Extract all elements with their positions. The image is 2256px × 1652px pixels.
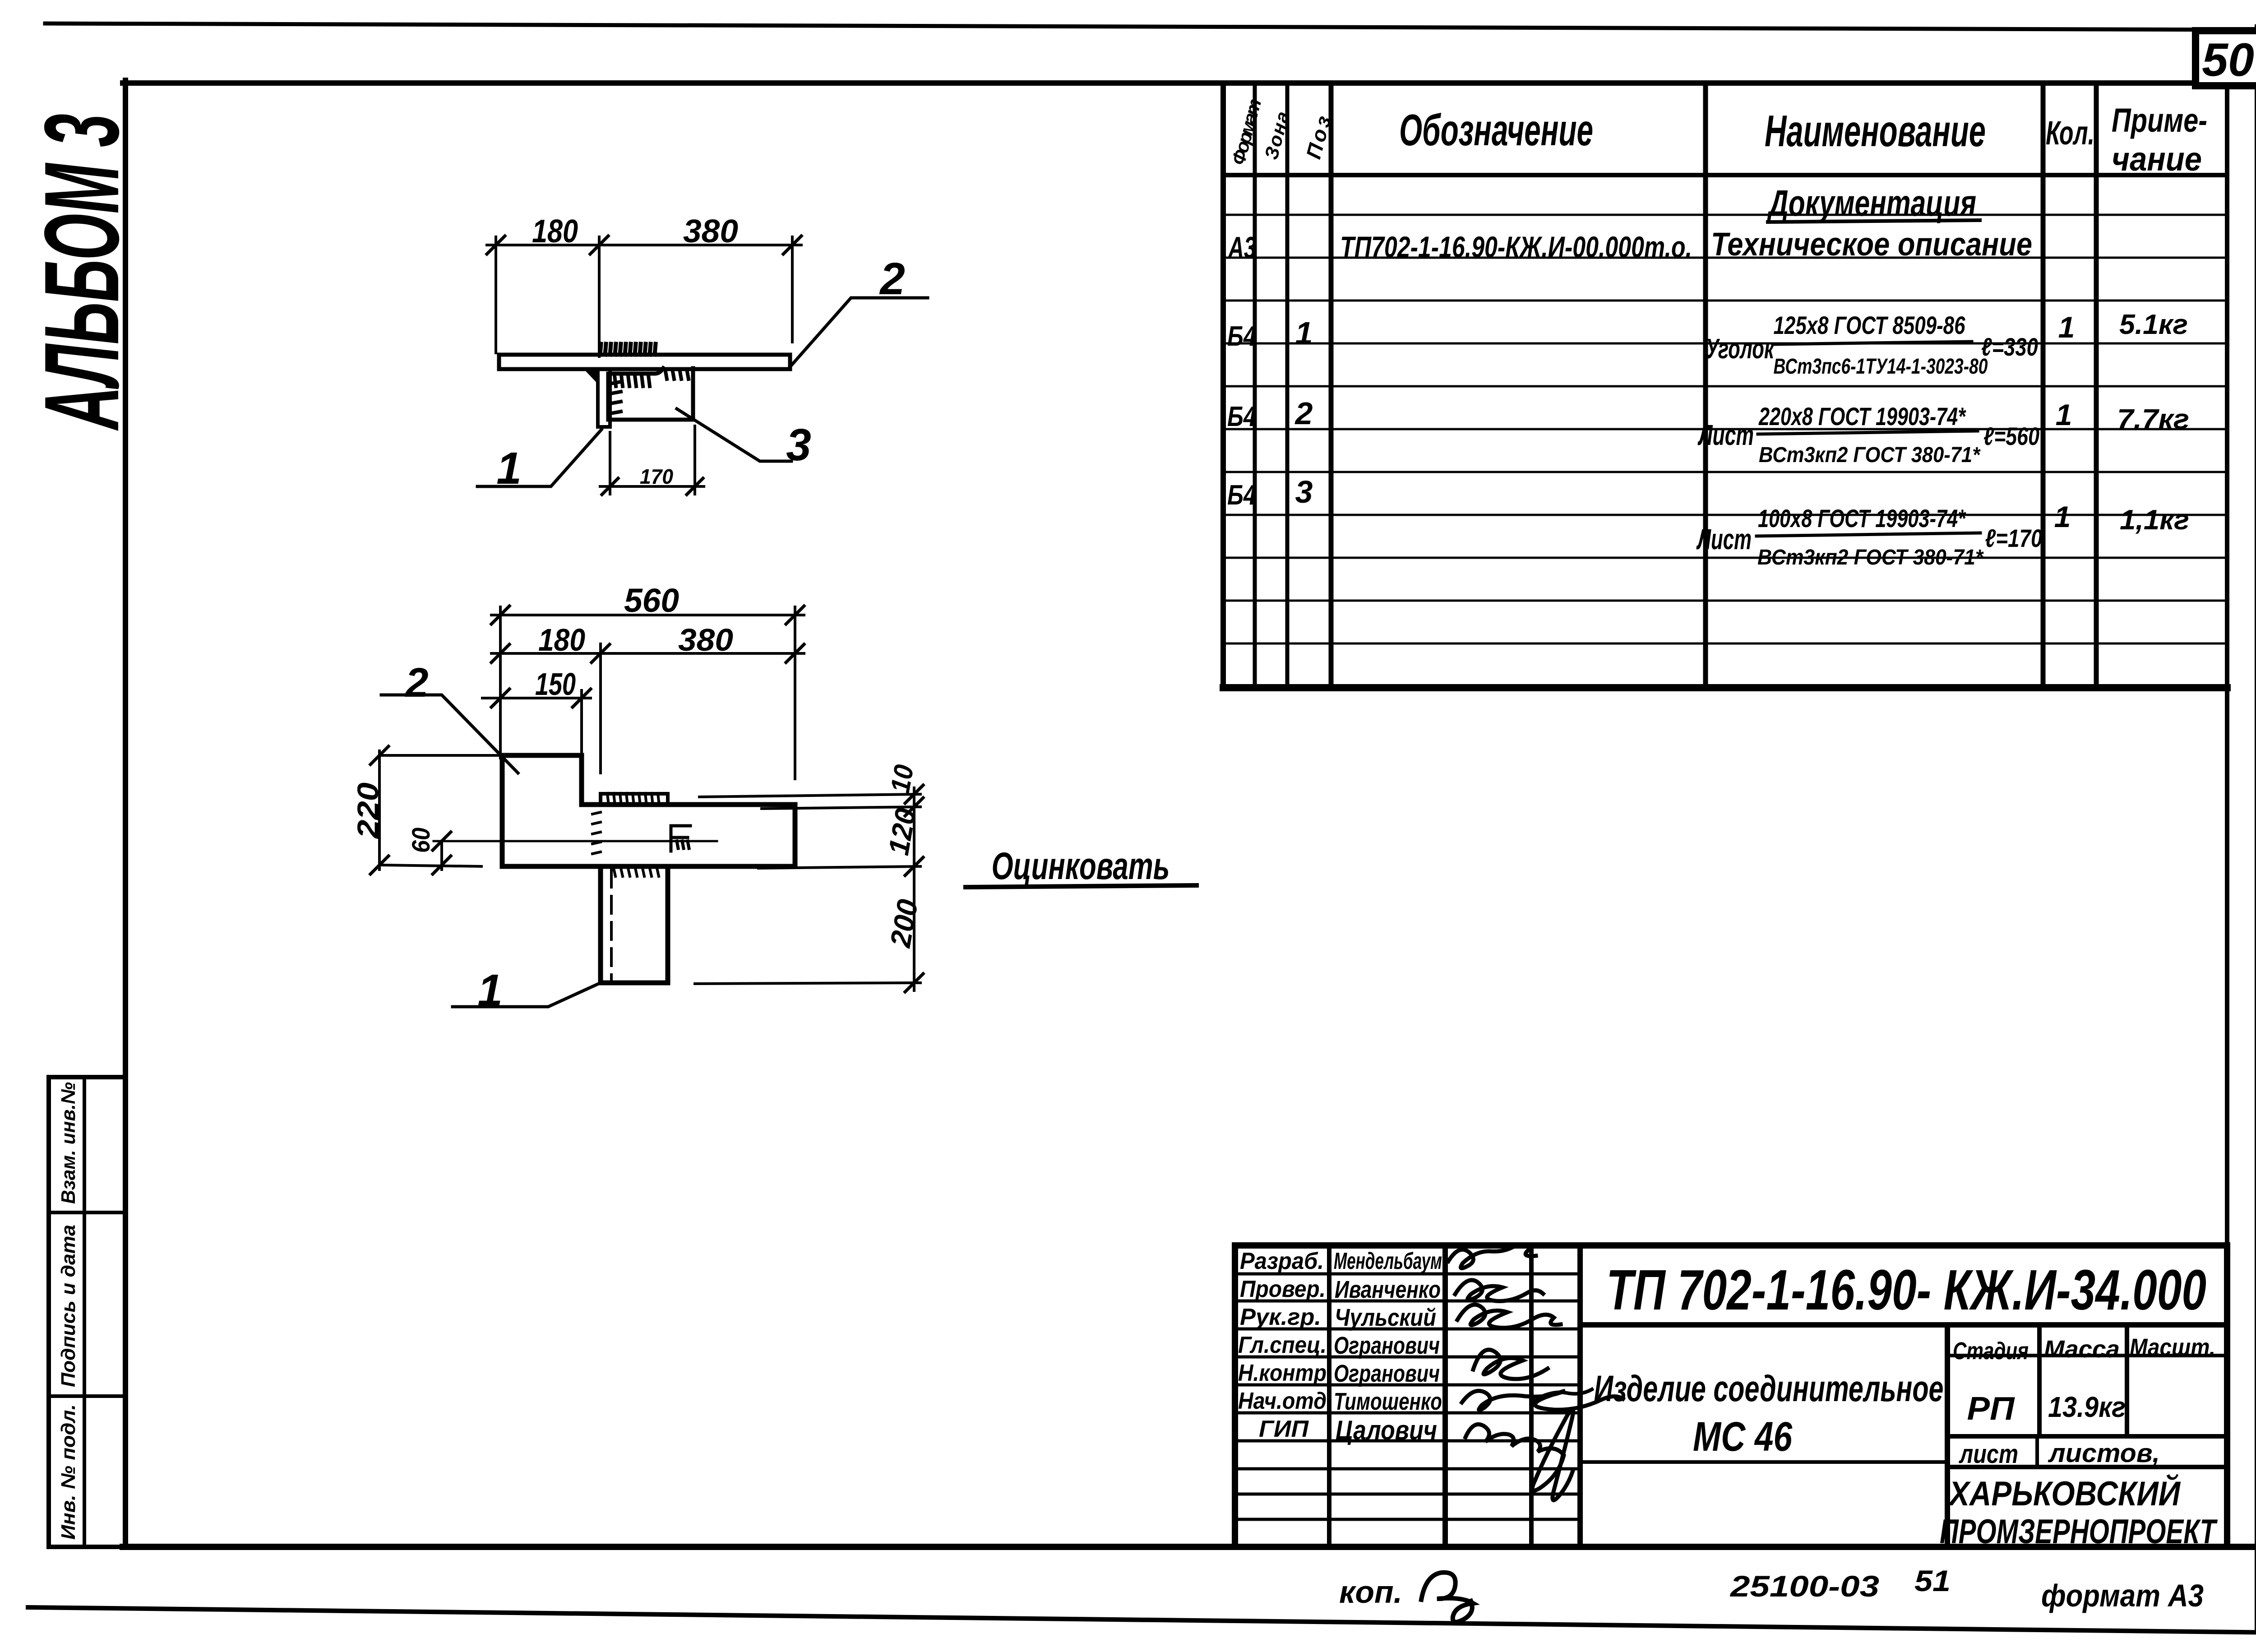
- v1 dim tick right: [783, 236, 801, 254]
- tb col signatures/date: [1529, 1245, 1534, 1547]
- v2 dim 560 tick left: [491, 606, 509, 624]
- frame left edge: [123, 80, 128, 1547]
- svg-text:Взам. инв.№: Взам. инв.№: [57, 1082, 79, 1204]
- v2 right tick 10a: [905, 785, 923, 803]
- tb col Масса/Масшт: [2125, 1325, 2129, 1436]
- tb row под МС46: [1580, 1460, 1947, 1464]
- svg-text:листов,: листов,: [2048, 1439, 2160, 1468]
- v2 right ext leg bottom: [695, 983, 920, 984]
- svg-text:ТП 702-1-16.90- КЖ.И-34.000: ТП 702-1-16.90- КЖ.И-34.000: [1606, 1258, 2206, 1322]
- v2 right ext bar bottom: [758, 866, 920, 868]
- svg-text:13.9кг: 13.9кг: [2048, 1391, 2126, 1423]
- spec header bottom line: [1223, 173, 2227, 177]
- svg-text:25100-03: 25100-03: [1729, 1569, 1879, 1603]
- svg-text:1: 1: [2056, 398, 2072, 431]
- svg-text:3: 3: [786, 420, 811, 470]
- svg-text:ВСт3кп2 ГОСТ 380-71*: ВСт3кп2 ГОСТ 380-71*: [1757, 546, 1984, 569]
- svg-text:АЛЬБОМ 3: АЛЬБОМ 3: [22, 114, 141, 431]
- spec col line Зона/Поз: [1285, 83, 1290, 688]
- svg-text:170: 170: [640, 465, 673, 488]
- v2 dim tick mid2: [592, 644, 610, 662]
- v1 dim line 170: [600, 485, 704, 488]
- v2 dim line 150: [482, 697, 591, 699]
- frame right edge: [2255, 27, 2256, 1630]
- v1 weld ticks below plate right: [665, 369, 689, 379]
- svg-text:Иванченко: Иванченко: [1335, 1276, 1441, 1303]
- v1 leader pos2: [790, 298, 928, 367]
- svg-text:1: 1: [477, 965, 503, 1016]
- item3 fraction bar: [1757, 533, 1980, 536]
- svg-text:50: 50: [2202, 34, 2254, 86]
- svg-text:150: 150: [535, 666, 576, 702]
- svg-text:Провер.: Провер.: [1240, 1276, 1326, 1302]
- tb col Стадия/Масса: [2037, 1325, 2042, 1436]
- svg-text:ВСт3кп2 ГОСТ 380-71*: ВСт3кп2 ГОСТ 380-71*: [1759, 443, 1981, 467]
- v2 leader pos2: [381, 695, 518, 773]
- inner right margin line: [2225, 83, 2229, 1547]
- svg-text:Кол.: Кол.: [2046, 114, 2094, 152]
- tb row под Стадия header: [1947, 1354, 2227, 1357]
- v2 weld symbol: [671, 826, 690, 851]
- v2 ext line right: [794, 607, 796, 779]
- svg-text:Масса: Масса: [2044, 1336, 2120, 1363]
- svg-text:125х8 ГОСТ 8509-86: 125х8 ГОСТ 8509-86: [1774, 311, 1966, 339]
- svg-text:Разраб.: Разраб.: [1240, 1248, 1324, 1274]
- svg-text:Наименование: Наименование: [1765, 106, 1986, 156]
- tb col labels/names: [1327, 1245, 1331, 1547]
- svg-text:1: 1: [1295, 315, 1313, 351]
- svg-text:51: 51: [1914, 1564, 1951, 1597]
- svg-text:Приме-: Приме-: [2112, 102, 2207, 139]
- tb row lines left section: [1235, 1274, 1580, 1519]
- svg-text:А3: А3: [1228, 231, 1257, 265]
- svg-text:Лист: Лист: [1697, 419, 1754, 451]
- v2 right ext 10 top: [699, 794, 920, 797]
- v1 ext line right: [791, 237, 794, 342]
- svg-text:Тимошенко: Тимошенко: [1334, 1388, 1442, 1415]
- item1 fraction bar: [1773, 342, 1972, 344]
- svg-text:2: 2: [1294, 396, 1313, 431]
- v2 dim 220 tick bottom: [370, 856, 388, 874]
- svg-text:Чульский: Чульский: [1335, 1304, 1436, 1331]
- v2 centerline 60: [434, 840, 717, 842]
- v2 weld ticks on pos3: [607, 793, 659, 801]
- v2 dim 220 ext top: [381, 754, 502, 757]
- title block outer rect: [1235, 1245, 2227, 1547]
- svg-text:Цалович: Цалович: [1336, 1415, 1437, 1445]
- svg-text:коп.: коп.: [1339, 1574, 1402, 1610]
- v1 dim tick mid: [590, 236, 608, 254]
- frame bottom edge: [123, 1544, 2256, 1550]
- svg-text:1: 1: [2058, 310, 2075, 344]
- tb signature squiggle Н.контр: [1462, 1391, 1623, 1410]
- v1 weld fillet triangle: [583, 368, 598, 384]
- v2 dim 150 tick right: [573, 689, 591, 707]
- sheet number box: [2196, 31, 2256, 86]
- v2 angle bend dashed line: [610, 870, 613, 980]
- svg-text:Б4: Б4: [1227, 321, 1256, 352]
- tb signature tail into big cell: [1533, 1389, 1592, 1401]
- tb signature squiggle Гл.спец: [1473, 1350, 1548, 1379]
- spec col line Наименование/Кол: [2041, 83, 2046, 688]
- v2 dim line 560: [491, 614, 804, 616]
- svg-text:180: 180: [538, 622, 585, 657]
- v2 leader pos1: [453, 983, 601, 1007]
- v2 dim 60 tick bottom: [433, 856, 451, 874]
- tb row под values: [1947, 1434, 2227, 1439]
- svg-text:10: 10: [885, 763, 920, 796]
- svg-text:Лист: Лист: [1696, 523, 1752, 555]
- svg-text:7.7кг: 7.7кг: [2117, 404, 2189, 435]
- v2 ext line 150: [580, 690, 583, 755]
- underline of Документация: [1768, 220, 1980, 222]
- svg-text:1,1кг: 1,1кг: [2120, 504, 2189, 536]
- svg-text:180: 180: [532, 213, 578, 250]
- svg-text:РП: РП: [1967, 1391, 2016, 1427]
- page bottom trim line: [28, 1607, 2256, 1633]
- svg-text:Масшт.: Масшт.: [2130, 1334, 2215, 1361]
- svg-text:380: 380: [678, 622, 733, 657]
- svg-text:2: 2: [404, 660, 428, 706]
- svg-text:Н.контр: Н.контр: [1238, 1360, 1327, 1386]
- tb signature squiggle Провер: [1455, 1280, 1543, 1301]
- tb signature squiggle Рук.гр: [1457, 1305, 1561, 1328]
- svg-text:60: 60: [407, 828, 435, 853]
- svg-text:Огранович: Огранович: [1334, 1332, 1440, 1359]
- svg-text:Огранович: Огранович: [1334, 1360, 1440, 1387]
- v2 plate pos2 outline: [502, 755, 795, 866]
- svg-text:Б4: Б4: [1227, 480, 1256, 511]
- v1 weld ticks inside pos3: [615, 375, 650, 386]
- v1 dim tick 170 right: [687, 478, 703, 495]
- svg-text:ХАРЬКОВСКИЙ: ХАРЬКОВСКИЙ: [1947, 1474, 2181, 1513]
- left stamp block outer rect: [49, 1077, 125, 1547]
- left stamp divider 2: [49, 1394, 125, 1398]
- tb col date/big section: [1577, 1245, 1583, 1547]
- v1 leader pos1: [477, 430, 601, 486]
- v2 plate pos3 edge: [601, 794, 668, 805]
- spec col line Обозначение/Наименование: [1703, 83, 1708, 688]
- v1 dim 170 ext left: [609, 432, 611, 494]
- v1 dim line 180/380: [487, 244, 801, 246]
- v2 dim tick right2: [786, 644, 804, 662]
- svg-text:220х8 ГОСТ 19903-74*: 220х8 ГОСТ 19903-74*: [1758, 402, 1966, 430]
- svg-text:ТП702-1-16.90-КЖ.И-00.000т.о.: ТП702-1-16.90-КЖ.И-00.000т.о.: [1340, 230, 1692, 264]
- svg-text:ℓ=560: ℓ=560: [1983, 422, 2039, 450]
- v2 right tick 200: [905, 974, 923, 992]
- tb signature flourish ГИП: [1465, 1410, 1573, 1500]
- spec table left edge: [1220, 83, 1226, 688]
- v2 weld ticks below bar: [614, 868, 659, 876]
- v1 ext line mid: [598, 237, 601, 356]
- svg-text:100х8 ГОСТ 19903-74*: 100х8 ГОСТ 19903-74*: [1758, 504, 1966, 532]
- svg-text:5.1кг: 5.1кг: [2119, 309, 2188, 340]
- v2 dim 60 line: [440, 841, 443, 870]
- tb row под лист/листов: [1947, 1465, 2227, 1469]
- v2 ext line left: [499, 607, 502, 758]
- spec col line Кол/Примечание: [2094, 83, 2099, 688]
- svg-text:Изделие соединительное: Изделие соединительное: [1594, 1368, 1944, 1409]
- v2 dim 60 tick top: [433, 832, 451, 850]
- v1 plate pos2 outline: [499, 355, 790, 369]
- v2 right tick 120: [905, 857, 923, 875]
- v1 ext line left: [495, 237, 497, 353]
- svg-text:Б4: Б4: [1227, 401, 1256, 432]
- bottom note signature flourish: [1421, 1573, 1473, 1622]
- v1 dim tick left: [487, 236, 505, 254]
- svg-text:лист: лист: [1958, 1439, 2018, 1469]
- v1 plate pos3 outline: [608, 368, 693, 420]
- svg-text:ПРОМЗЕРНОПРОЕКТ: ПРОМЗЕРНОПРОЕКТ: [1940, 1513, 2218, 1551]
- svg-text:Мендельбаум: Мендельбаум: [1334, 1248, 1442, 1274]
- spec col line Формат/Зона: [1253, 83, 1257, 688]
- spec row lines: [1223, 215, 2227, 643]
- v2 dim tick left2: [491, 644, 509, 662]
- svg-text:ГИП: ГИП: [1259, 1416, 1309, 1442]
- svg-text:формат А3: формат А3: [2041, 1578, 2204, 1613]
- svg-text:220: 220: [351, 782, 384, 840]
- note underline: [966, 885, 1197, 887]
- v2 dim 220 line: [378, 751, 381, 870]
- v2 right tick 10b: [905, 798, 923, 816]
- svg-text:1: 1: [496, 443, 522, 494]
- v2 ext line mid: [599, 644, 602, 773]
- svg-text:ℓ=330: ℓ=330: [1981, 333, 2038, 361]
- svg-text:1: 1: [2054, 500, 2071, 533]
- svg-text:Подпись и дата: Подпись и дата: [57, 1225, 79, 1387]
- left stamp divider vertical: [83, 1077, 86, 1547]
- svg-text:Уголок: Уголок: [1706, 333, 1775, 365]
- v2 dim 220 tick top: [370, 746, 388, 764]
- svg-text:Документация: Документация: [1767, 183, 1976, 224]
- frame top edge: [123, 80, 2256, 86]
- svg-text:Гл.спец.: Гл.спец.: [1238, 1332, 1327, 1358]
- tb col лист/листов: [2035, 1436, 2039, 1467]
- v2 weld ticks left of leg: [592, 812, 601, 854]
- v1 leader pos3: [677, 409, 791, 461]
- svg-text:Обозначение: Обозначение: [1399, 105, 1593, 155]
- v2 dim 150 tick left: [491, 689, 509, 707]
- svg-text:3: 3: [1295, 474, 1313, 509]
- svg-text:Стадия: Стадия: [1953, 1337, 2029, 1365]
- tb col names/signatures: [1442, 1245, 1448, 1547]
- v2 right dim vertical line: [913, 788, 915, 990]
- v1 weld ticks right of leg: [611, 382, 621, 413]
- svg-text:Техническое описание: Техническое описание: [1711, 227, 2032, 263]
- svg-text:ВСт3пс6-1ТУ14-1-3023-80: ВСт3пс6-1ТУ14-1-3023-80: [1774, 355, 1988, 379]
- v2 dim line 180/380: [491, 652, 804, 655]
- left stamp divider 1: [49, 1211, 125, 1214]
- item2 fraction bar: [1758, 431, 1978, 434]
- svg-text:ℓ=170: ℓ=170: [1985, 524, 2043, 552]
- svg-text:МС 46: МС 46: [1693, 1414, 1793, 1460]
- svg-text:380: 380: [683, 213, 738, 250]
- tb col Изделие/Стадия: [1945, 1325, 1950, 1547]
- v1 weld ticks above plate: [600, 344, 656, 355]
- svg-text:2: 2: [879, 254, 905, 304]
- spec col line Поз/Обозначение: [1329, 83, 1334, 688]
- tb signature squiggle Разраб: [1448, 1244, 1536, 1268]
- v2 dim 560 tick right: [786, 606, 804, 624]
- svg-text:Рук.гр.: Рук.гр.: [1240, 1304, 1321, 1330]
- v2 dim 220 ext bottom: [381, 865, 481, 866]
- tb separator под ТП702 cell: [1580, 1322, 2227, 1328]
- svg-text:Оцинковать: Оцинковать: [992, 845, 1170, 887]
- svg-text:560: 560: [624, 582, 679, 619]
- v1 dim 170 ext right: [693, 426, 696, 494]
- v1 angle leg pos1: [598, 369, 610, 427]
- svg-text:чание: чание: [2112, 140, 2202, 178]
- v2 right ext bar top: [762, 807, 920, 809]
- svg-text:Нач.отд: Нач.отд: [1238, 1388, 1327, 1414]
- spec table bottom line: [1223, 684, 2227, 691]
- v2 angle leg pos1: [601, 866, 668, 983]
- page top trim line: [45, 23, 2256, 30]
- svg-text:Инв. № подл.: Инв. № подл.: [57, 1404, 79, 1540]
- v1 dim tick 170 left: [602, 478, 618, 495]
